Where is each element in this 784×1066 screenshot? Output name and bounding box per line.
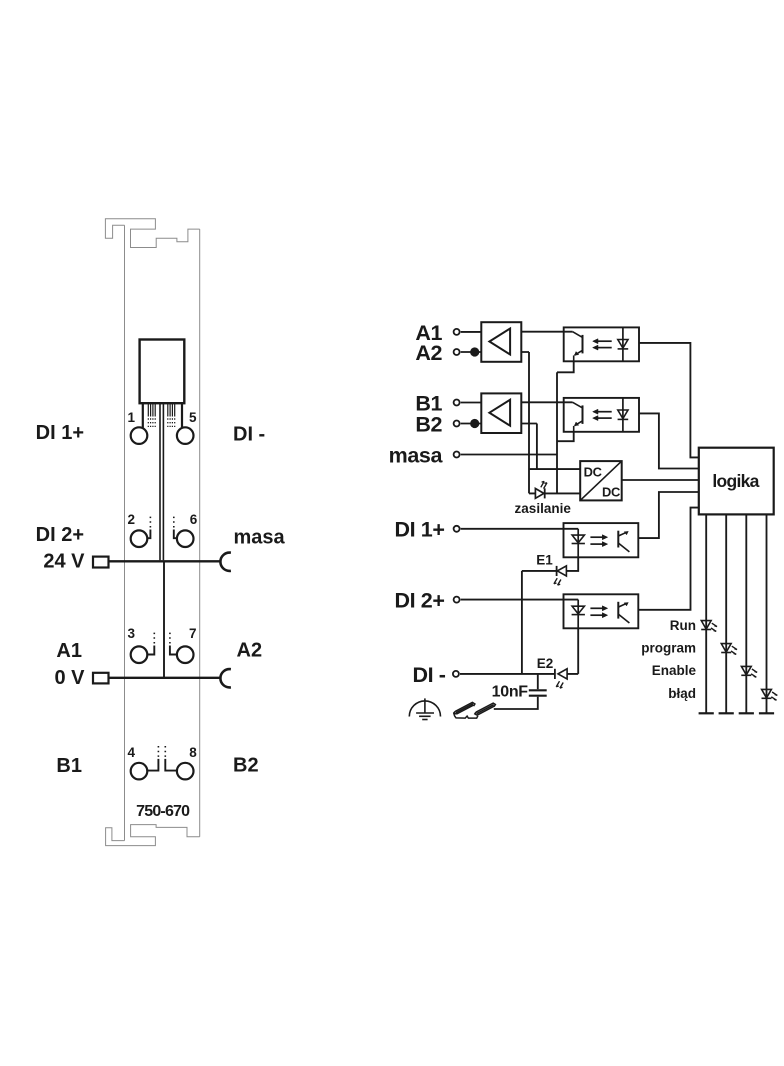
wire A1 to comparator: [461, 331, 482, 333]
wire DI1+ into OK3: [461, 528, 579, 530]
svg-text:B2: B2: [233, 755, 259, 777]
terminal 4: [131, 763, 148, 780]
comparator U1: [481, 322, 521, 362]
module body right edge: [199, 229, 201, 837]
wire DI- bus: [460, 673, 555, 675]
LED line Enable: [745, 514, 747, 713]
OK4 phototransistor: [617, 602, 619, 619]
power bus single wire: [163, 561, 165, 678]
diode E1: [557, 566, 566, 576]
wire DI2+ into OK4: [461, 599, 579, 601]
OK2 LED stem: [622, 398, 624, 432]
OK4 LED stem: [577, 600, 579, 629]
LED Run: [701, 621, 711, 630]
OK3 light arrows: [590, 536, 603, 538]
terminal 8: [177, 763, 194, 780]
svg-text:6: 6: [190, 512, 198, 527]
connector thin pins right dotted: [168, 418, 175, 427]
OK2 emitter foot wire: [557, 432, 574, 441]
zasilanie LED: [535, 489, 544, 499]
svg-text:B1: B1: [56, 755, 82, 777]
svg-text:A2: A2: [415, 341, 442, 365]
OK2 LED diode: [618, 410, 628, 419]
DC/DC output wire to logika: [622, 479, 699, 481]
bus connector block: [140, 340, 185, 404]
wire B2 to comparator: [461, 423, 482, 425]
junction dot B2: [470, 419, 479, 428]
wire masa to node C: [461, 454, 557, 456]
OK3 LED stem: [577, 529, 579, 558]
svg-text:24 V: 24 V: [43, 550, 85, 572]
svg-text:2: 2: [128, 512, 136, 527]
OK4 LED diode: [572, 606, 584, 614]
wire E1 to DI- bus: [522, 571, 557, 674]
terminal DI 1+: [454, 526, 460, 532]
connector thin pins left dotted: [148, 418, 155, 427]
LED line blad: [766, 514, 768, 713]
svg-text:B2: B2: [415, 412, 442, 436]
E1 wire from OK3 LED: [566, 557, 578, 571]
svg-text:A2: A2: [237, 640, 263, 662]
LED supply wire to DC/DC lower input: [529, 492, 580, 494]
0V rail wire: [109, 677, 221, 679]
wire B1 to comparator: [461, 402, 482, 404]
svg-text:3: 3: [128, 626, 136, 641]
wire B2 return: U2 down to supply node: [521, 424, 537, 470]
connector thin pins left: [148, 403, 155, 416]
OK2 phototransistor: [582, 405, 584, 424]
svg-text:DC: DC: [584, 465, 602, 480]
OK2 output wire to logika: [639, 413, 699, 468]
DC/DC converter: [580, 461, 622, 500]
wire U2 out to optocoupler OK2: [521, 401, 572, 403]
terminal B2: [454, 421, 460, 427]
node C vertical wire: [556, 372, 558, 493]
LED blad: [762, 689, 772, 698]
svg-text:DI 1+: DI 1+: [395, 518, 445, 542]
OK2 light arrows: [598, 411, 612, 413]
optocoupler OK1 box: [564, 327, 639, 361]
svg-text:DI -: DI -: [233, 423, 265, 445]
LED line program: [725, 514, 727, 713]
svg-text:E1: E1: [536, 553, 553, 568]
svg-text:A1: A1: [56, 640, 82, 662]
terminal B1: [454, 400, 460, 406]
DIN rail icon: [454, 702, 496, 718]
OK4 light arrows: [590, 607, 603, 609]
optocoupler OK3 box: [564, 523, 639, 557]
svg-text:7: 7: [189, 626, 197, 641]
terminal 6: [177, 530, 194, 547]
24V plug: [93, 557, 109, 568]
module body left edge: [124, 225, 126, 840]
OK1 emitter foot wire: [557, 361, 574, 372]
terminal 7: [177, 646, 194, 663]
terminal DI 2+: [454, 597, 460, 603]
connector pin 1 lead: [142, 403, 144, 427]
logika box: [699, 448, 774, 515]
OK1 LED stem: [622, 327, 624, 361]
svg-text:błąd: błąd: [668, 686, 696, 701]
svg-text:Enable: Enable: [652, 663, 697, 678]
24V right hook: [220, 553, 230, 571]
svg-text:logika: logika: [712, 471, 759, 491]
OK1 LED diode: [618, 340, 628, 349]
terminal 1: [131, 427, 148, 444]
24V rail wire: [109, 560, 221, 562]
svg-text:DC: DC: [602, 484, 620, 499]
svg-text:program: program: [641, 641, 696, 656]
E2 wire from OK4 LED: [567, 628, 578, 674]
wire A2 return: U1 to node A: [521, 352, 529, 493]
connector pin 5 lead: [181, 403, 183, 427]
wire A2 to comparator: [461, 351, 482, 353]
OK4 output wire to logika: [638, 508, 699, 610]
module top DIN-clip outline: [105, 219, 199, 248]
svg-text:Run: Run: [670, 618, 696, 633]
svg-text:0 V: 0 V: [54, 667, 85, 689]
terminal A1: [454, 329, 460, 335]
connector thin pins right: [168, 403, 175, 416]
svg-text:DI 1+: DI 1+: [36, 422, 84, 444]
0V right hook: [220, 669, 230, 687]
wire U1 out to optocoupler OK1: [521, 331, 572, 333]
svg-text:zasilanie: zasilanie: [515, 501, 572, 516]
LED Enable: [741, 666, 751, 675]
svg-text:DI 2+: DI 2+: [36, 524, 84, 546]
supply wire to DC/DC upper input: [529, 468, 580, 470]
power bus double wire: [159, 403, 161, 560]
optocoupler OK4 box: [564, 594, 639, 628]
terminal A2: [454, 349, 460, 355]
terminal 3: [131, 646, 148, 663]
OK3 output wire to logika: [638, 492, 699, 538]
LED program: [721, 644, 731, 653]
OK1 light arrows: [598, 340, 612, 342]
junction dot A2: [470, 347, 479, 356]
terminal 5: [177, 427, 194, 444]
terminal masa: [454, 452, 460, 458]
LED line Run: [705, 514, 707, 713]
OK3 phototransistor: [617, 531, 619, 548]
svg-text:750-670: 750-670: [136, 803, 190, 820]
ground symbol: [409, 698, 440, 719]
capacitor C1 10nF: [537, 674, 539, 689]
svg-text:masa: masa: [389, 444, 444, 468]
comparator U2: [481, 393, 521, 433]
svg-text:8: 8: [189, 745, 197, 760]
0V plug: [93, 673, 109, 684]
svg-text:E2: E2: [537, 656, 554, 671]
svg-text:masa: masa: [234, 527, 286, 549]
terminal DI -: [453, 671, 459, 677]
svg-text:1: 1: [128, 410, 136, 425]
terminal 2: [131, 530, 148, 547]
OK1 output wire to logika: [639, 343, 699, 458]
optocoupler OK2 box: [564, 398, 639, 432]
svg-text:5: 5: [189, 410, 197, 425]
svg-text:DI 2+: DI 2+: [395, 589, 445, 613]
OK3 LED diode: [572, 535, 584, 543]
svg-text:4: 4: [128, 745, 136, 760]
OK1 phototransistor: [582, 335, 584, 354]
svg-text:DI -: DI -: [412, 663, 445, 687]
module bottom DIN-clip outline: [106, 825, 200, 846]
svg-text:10nF: 10nF: [492, 683, 529, 700]
diode E2: [558, 669, 567, 679]
